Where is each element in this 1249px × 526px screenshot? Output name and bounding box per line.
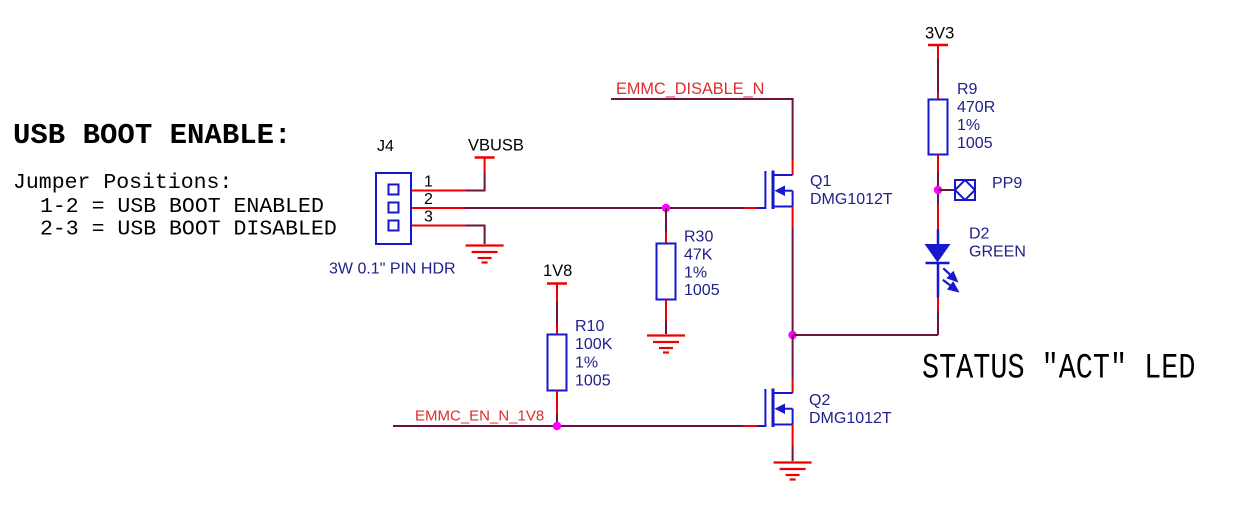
junction node Q1/Q2/LED xyxy=(788,331,796,339)
resistor R9 body xyxy=(929,100,948,155)
junction node R10/row2 xyxy=(553,422,561,430)
svg-text:2: 2 xyxy=(424,191,433,208)
svg-text:R30: R30 xyxy=(684,229,713,246)
wire 3V3 to R9 xyxy=(937,59,939,94)
transistor Q1 xyxy=(757,171,793,210)
ground below Q2 xyxy=(774,463,812,480)
svg-text:R9: R9 xyxy=(957,81,978,98)
power symbol 1V8 bar xyxy=(547,282,567,285)
svg-text:2-3 = USB BOOT DISABLED: 2-3 = USB BOOT DISABLED xyxy=(40,218,337,242)
svg-text:3: 3 xyxy=(424,209,433,226)
wire junction to testpoint PP9 xyxy=(938,189,955,191)
power symbol 3V3 bar xyxy=(928,44,948,47)
svg-text:VBUSB: VBUSB xyxy=(468,137,524,155)
svg-text:3V3: 3V3 xyxy=(925,25,954,43)
wire Q2 source to ground xyxy=(792,425,794,447)
resistor R10 body xyxy=(548,335,567,391)
svg-text:DMG1012T: DMG1012T xyxy=(809,410,892,427)
wire pin 3 to ground xyxy=(465,226,485,245)
power symbol VBUSB bar xyxy=(475,156,495,159)
pin 2 stub xyxy=(412,207,465,209)
svg-text:DMG1012T: DMG1012T xyxy=(810,191,893,208)
svg-text:47K: 47K xyxy=(684,247,713,264)
wire row2 EMMC_EN_N_1V8 xyxy=(393,425,743,427)
pin 1 stub xyxy=(412,190,465,192)
wire R10 to row2 junction xyxy=(556,391,558,415)
LED D2 xyxy=(937,230,940,245)
wire LED D2 to row3 xyxy=(937,298,939,312)
svg-text:D2: D2 xyxy=(969,226,990,243)
junction node pin2/R30 xyxy=(662,204,670,212)
svg-text:1%: 1% xyxy=(684,265,707,282)
svg-text:1: 1 xyxy=(424,174,433,191)
junction node PP9 xyxy=(934,186,942,194)
svg-text:1005: 1005 xyxy=(957,135,993,152)
pin 3 stub xyxy=(412,225,465,227)
svg-text:470R: 470R xyxy=(957,99,995,116)
svg-text:3W 0.1" PIN HDR: 3W 0.1" PIN HDR xyxy=(329,261,456,278)
testpoint PP9 symbol xyxy=(955,180,975,200)
resistor R30 body xyxy=(657,244,676,300)
wire pin 2 row to Q1 gate xyxy=(465,207,743,209)
svg-text:100K: 100K xyxy=(575,336,613,353)
wire EMMC_DISABLE_N to Q1 drain xyxy=(611,99,793,160)
svg-text:Jumper Positions:: Jumper Positions: xyxy=(13,171,232,195)
wire junction down to Q2 drain xyxy=(792,335,794,379)
wire junction down to LED D2 xyxy=(937,205,939,230)
svg-text:STATUS "ACT" LED: STATUS "ACT" LED xyxy=(922,349,1195,388)
LED D2 emission arrows xyxy=(943,268,958,291)
wire 1V8 to R10 xyxy=(556,302,558,324)
svg-text:EMMC_EN_N_1V8: EMMC_EN_N_1V8 xyxy=(415,408,544,425)
svg-text:1%: 1% xyxy=(575,355,598,372)
ground below R30 xyxy=(647,336,685,353)
svg-text:Q2: Q2 xyxy=(809,392,830,409)
svg-text:Q1: Q1 xyxy=(810,173,831,190)
svg-text:R10: R10 xyxy=(575,318,604,335)
wire row3 junction to LED branch xyxy=(793,334,938,336)
svg-text:1005: 1005 xyxy=(684,282,720,299)
svg-text:GREEN: GREEN xyxy=(969,244,1026,261)
wire R30 to ground xyxy=(665,300,667,322)
ground below J4 pin 3 xyxy=(466,246,504,263)
wire VBUSB to pin 1 xyxy=(465,171,485,191)
svg-text:1%: 1% xyxy=(957,117,980,134)
svg-text:J4: J4 xyxy=(377,138,394,155)
svg-text:EMMC_DISABLE_N: EMMC_DISABLE_N xyxy=(616,80,764,98)
connector J4 body xyxy=(376,173,411,244)
wire R9 to PP9 junction xyxy=(937,155,939,173)
transistor Q2 xyxy=(757,389,793,428)
wire junction down to R30 xyxy=(665,208,667,232)
svg-text:1005: 1005 xyxy=(575,373,611,390)
svg-text:1-2 = USB BOOT ENABLED: 1-2 = USB BOOT ENABLED xyxy=(40,195,324,219)
wire Q1 source down to junction xyxy=(792,207,794,229)
svg-text:1V8: 1V8 xyxy=(543,262,572,280)
svg-text:PP9: PP9 xyxy=(992,175,1022,192)
svg-text:USB BOOT ENABLE:: USB BOOT ENABLE: xyxy=(13,119,291,152)
